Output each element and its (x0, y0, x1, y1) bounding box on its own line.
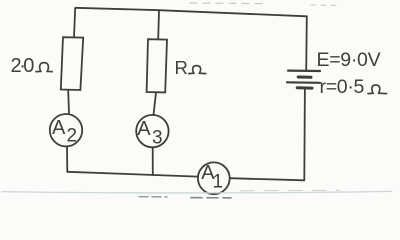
svg-text:0: 0 (23, 55, 34, 77)
svg-text:A: A (137, 118, 151, 140)
svg-text:2: 2 (67, 126, 78, 147)
svg-text:R: R (175, 57, 188, 78)
svg-text:r=0·5: r=0·5 (320, 76, 365, 98)
svg-text:E=9·0V: E=9·0V (317, 49, 381, 71)
svg-text:1: 1 (213, 172, 224, 193)
svg-text:A: A (52, 117, 66, 139)
svg-text:3: 3 (152, 128, 163, 149)
